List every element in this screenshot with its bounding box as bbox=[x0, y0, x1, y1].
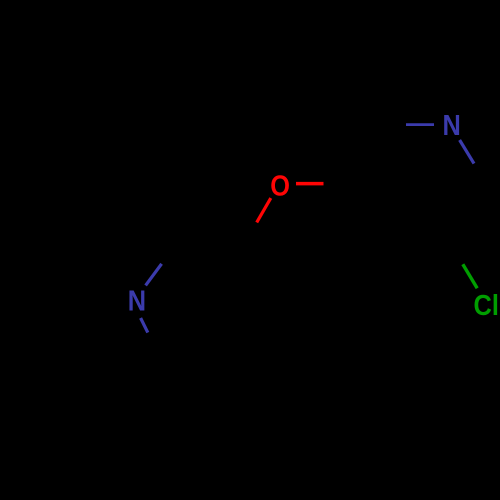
svg-text:N: N bbox=[442, 109, 460, 142]
svg-text:O: O bbox=[270, 169, 290, 202]
svg-text:N: N bbox=[128, 284, 146, 317]
svg-text:Cl: Cl bbox=[474, 288, 499, 321]
